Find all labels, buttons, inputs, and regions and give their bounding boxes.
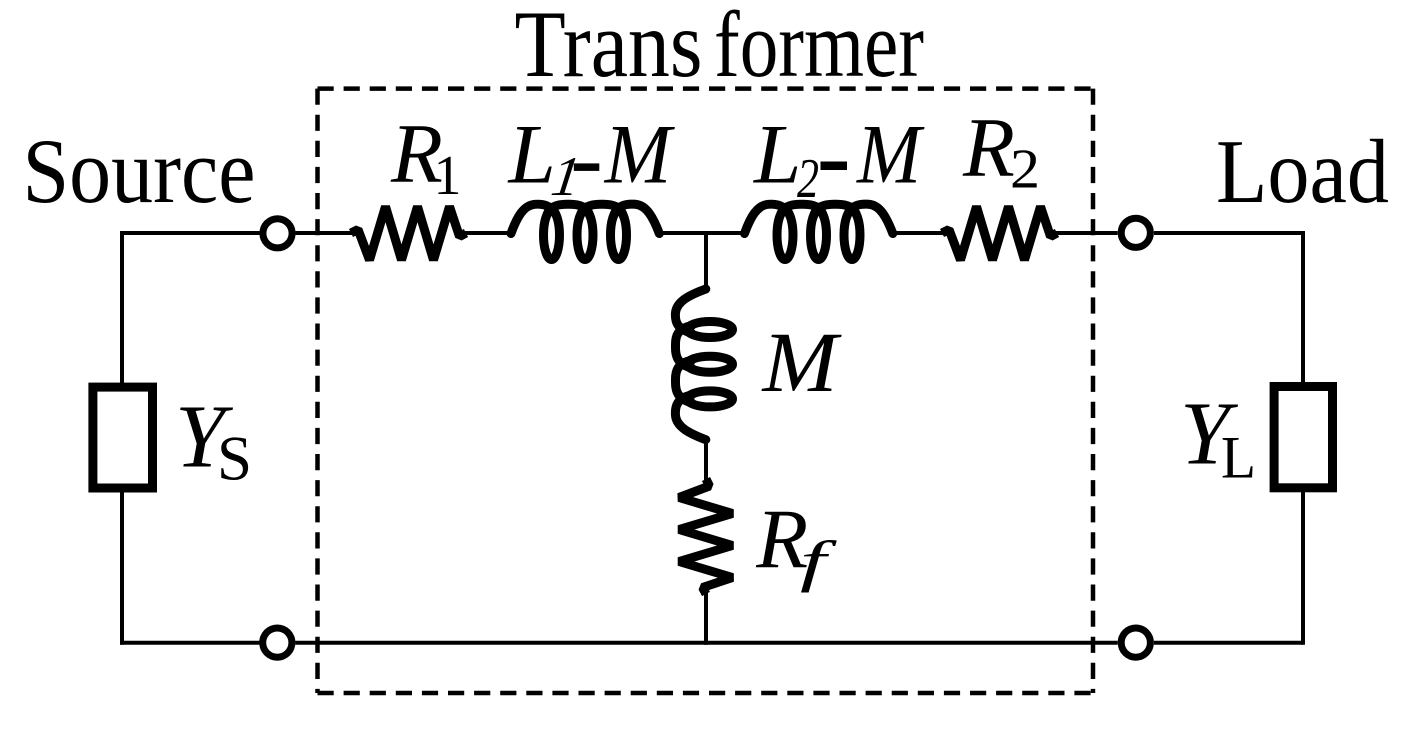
resistor Rf bbox=[679, 479, 733, 594]
node terminal bottom-right circle bbox=[1121, 628, 1150, 657]
node terminal top-left circle bbox=[263, 219, 292, 248]
svg-text:f: f bbox=[800, 531, 838, 594]
wire left vertical upper bbox=[120, 231, 124, 384]
admittance YL box bbox=[1274, 387, 1332, 488]
label R1 bbox=[390, 107, 462, 207]
svg-text:Trans: Trans bbox=[515, 0, 703, 97]
wire L1-M to L2-M through node bbox=[662, 231, 742, 235]
node terminal bottom-left circle bbox=[263, 628, 292, 657]
wire L2-M to R2 bbox=[897, 231, 945, 235]
wire bottom-right horizontal bbox=[1154, 641, 1303, 645]
svg-text:former: former bbox=[714, 0, 924, 97]
svg-text:2: 2 bbox=[797, 148, 819, 210]
label L1-M bbox=[508, 108, 676, 208]
label L2-M bbox=[753, 108, 925, 211]
label YS bbox=[175, 388, 252, 494]
svg-text:2: 2 bbox=[1010, 139, 1040, 201]
wire R2 to top-right terminal bbox=[1055, 231, 1118, 235]
svg-text:M: M bbox=[604, 108, 675, 202]
resistor R1 bbox=[351, 207, 466, 261]
wire M to Rf bbox=[704, 441, 708, 481]
wire top-left horizontal bbox=[122, 231, 260, 235]
wire left vertical lower bbox=[120, 492, 124, 645]
svg-text:L: L bbox=[753, 108, 801, 202]
svg-text:L: L bbox=[1221, 425, 1256, 491]
svg-text:M: M bbox=[856, 108, 925, 202]
label Rf bbox=[755, 493, 837, 594]
svg-text:S: S bbox=[217, 424, 252, 494]
node terminal top-right circle bbox=[1121, 218, 1150, 247]
resistor R2 bbox=[942, 207, 1057, 261]
transformer boundary dashed box bbox=[318, 89, 1094, 693]
svg-text:R: R bbox=[962, 101, 1015, 195]
label R2 bbox=[962, 101, 1040, 201]
wire R1 to L1-M bbox=[464, 231, 510, 235]
svg-text:L: L bbox=[508, 108, 556, 202]
wire top-right horizontal bbox=[1154, 231, 1303, 235]
admittance YS box bbox=[93, 387, 153, 488]
wire bottom-left horizontal bbox=[120, 641, 260, 645]
wire Rf to bottom rail bbox=[704, 592, 708, 645]
svg-text:Source: Source bbox=[23, 120, 256, 222]
node center tap junction bbox=[704, 233, 708, 288]
wire right vertical upper bbox=[1301, 231, 1305, 383]
wire from top-left terminal to R1 bbox=[295, 231, 353, 235]
label YL bbox=[1180, 385, 1256, 491]
inductor L1-M bbox=[511, 204, 659, 259]
svg-text:1: 1 bbox=[434, 145, 462, 207]
svg-text:M: M bbox=[760, 314, 842, 410]
inductor L2-M bbox=[745, 204, 893, 259]
svg-text:Load: Load bbox=[1216, 121, 1389, 222]
wire right vertical lower bbox=[1301, 492, 1305, 645]
inductor M (magnetizing branch) bbox=[675, 289, 732, 440]
wire bottom center horizontal bbox=[295, 641, 1117, 645]
